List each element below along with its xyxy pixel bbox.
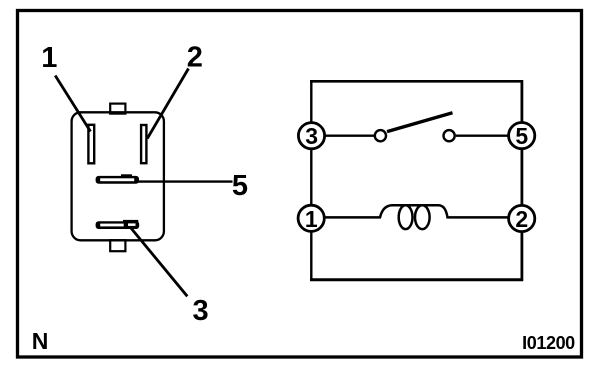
relay bottom mounting tab xyxy=(110,240,125,251)
wire: schematic top edge xyxy=(310,80,523,83)
terminal 1 xyxy=(298,205,324,232)
terminal slot 1 (left vertical) xyxy=(88,125,94,164)
relay body xyxy=(72,112,164,240)
svg-text:I01200: I01200 xyxy=(522,333,575,353)
wire: terminal 1 to coil and coil to terminal 2 xyxy=(324,205,509,217)
wire: schematic left edge (3 to 1) xyxy=(310,80,312,281)
terminal 5 xyxy=(509,123,535,150)
wire: schematic right edge (5 to 2) xyxy=(521,80,524,281)
wire: terminal 3 to switch contact xyxy=(324,134,374,136)
terminal 2 xyxy=(509,205,535,232)
wire: switch contact to terminal 5 xyxy=(456,134,509,136)
terminal slot 3 (bottom horizontal) xyxy=(96,220,140,229)
svg-text:2: 2 xyxy=(187,41,203,73)
svg-text:3: 3 xyxy=(305,123,318,149)
leader line pin 3 xyxy=(131,228,188,297)
switch contact A xyxy=(375,130,386,141)
relay top mounting tab xyxy=(110,104,125,114)
svg-text:1: 1 xyxy=(305,206,318,232)
terminal 3 xyxy=(298,123,324,150)
switch contact B xyxy=(444,130,455,141)
switch blade xyxy=(387,113,453,132)
svg-text:2: 2 xyxy=(515,206,528,232)
coil loop 1 xyxy=(399,205,413,229)
svg-text:1: 1 xyxy=(41,42,57,74)
svg-text:5: 5 xyxy=(232,170,248,202)
leader line pin 1 xyxy=(55,76,90,132)
terminal slot 5 (middle horizontal) xyxy=(96,174,139,183)
wire: schematic bottom edge xyxy=(310,278,523,281)
svg-text:N: N xyxy=(32,328,49,354)
terminal slot 2 (right vertical) xyxy=(141,125,146,163)
coil loop 2 xyxy=(415,205,430,229)
svg-text:3: 3 xyxy=(193,295,209,327)
leader line pin 2 xyxy=(147,69,188,139)
svg-text:5: 5 xyxy=(515,123,528,149)
leader line pin 5 xyxy=(137,180,233,182)
